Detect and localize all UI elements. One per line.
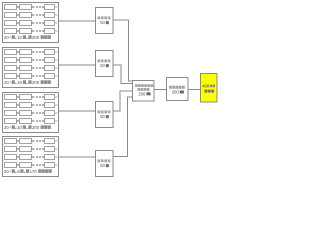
cell string row 1 in module group 1 bbox=[5, 5, 58, 10]
cell string row 2 in module group 4 bbox=[5, 147, 58, 152]
wire cluster 1 to PCS bus outer bbox=[113, 20, 132, 81]
svg-text:170: 170 bbox=[30, 169, 38, 174]
cell string row 3 in module group 2 bbox=[5, 66, 58, 71]
module group 1 caption 20 cells x N strings bbox=[4, 35, 51, 40]
battery module group box 4 bbox=[3, 137, 59, 177]
PCS converter box 200kW bbox=[133, 81, 155, 102]
battery cluster box 3 bbox=[96, 102, 114, 128]
cell string row 2 in module group 2 bbox=[5, 58, 58, 63]
battery cluster box 2 bbox=[96, 51, 114, 77]
wire module group 1 to cluster box 1 bbox=[58, 20, 95, 22]
svg-text:10: 10 bbox=[17, 35, 22, 40]
wire module group 3 to cluster box 3 bbox=[58, 110, 95, 112]
grid connection cabinet box 200kW bbox=[167, 78, 189, 101]
svg-text:10: 10 bbox=[17, 125, 22, 130]
battery module group box 1 bbox=[3, 3, 59, 43]
svg-text:20: 20 bbox=[4, 169, 9, 174]
cell string row 3 in module group 4 bbox=[5, 155, 58, 160]
cell string row 4 in module group 1 bbox=[5, 29, 58, 34]
cell string row 3 in module group 3 bbox=[5, 111, 58, 116]
cell string row 3 in module group 1 bbox=[5, 21, 58, 26]
cell string row 1 in module group 2 bbox=[5, 50, 58, 55]
svg-text:200: 200 bbox=[32, 80, 40, 85]
svg-text:200: 200 bbox=[172, 90, 180, 95]
wire cluster 2 to PCS bus inner bbox=[113, 65, 132, 84]
svg-text:20: 20 bbox=[4, 125, 9, 130]
battery module group box 3 bbox=[3, 93, 59, 133]
svg-text:200: 200 bbox=[32, 35, 40, 40]
svg-text:400: 400 bbox=[202, 84, 210, 89]
battery cluster box 4 bbox=[96, 151, 114, 177]
svg-text:20: 20 bbox=[4, 35, 9, 40]
wire module group 4 to cluster box 4 bbox=[58, 156, 95, 158]
module group 3 caption 20 cells x N strings bbox=[4, 125, 51, 130]
svg-text:50: 50 bbox=[100, 114, 105, 119]
wire cluster 4 to PCS bus outer lower bbox=[113, 97, 132, 157]
svg-text:20: 20 bbox=[4, 80, 9, 85]
cell string row 4 in module group 3 bbox=[5, 119, 58, 124]
battery cluster box 1 bbox=[96, 8, 114, 34]
wire cluster 3 to PCS bus inner lower bbox=[113, 91, 132, 111]
svg-text:200: 200 bbox=[32, 125, 40, 130]
svg-text:50: 50 bbox=[100, 163, 105, 168]
svg-text:200: 200 bbox=[138, 91, 146, 96]
cell string row 1 in module group 4 bbox=[5, 139, 58, 144]
cell string row 4 in module group 2 bbox=[5, 74, 58, 79]
cell string row 2 in module group 3 bbox=[5, 103, 58, 108]
wire module group 2 to cluster box 2 bbox=[58, 64, 95, 66]
wire cabinet to 400V access point bbox=[188, 89, 200, 91]
cell string row 1 in module group 3 bbox=[5, 95, 58, 100]
cell string row 2 in module group 1 bbox=[5, 13, 58, 18]
svg-text:50: 50 bbox=[100, 63, 105, 68]
battery module group box 2 bbox=[3, 48, 59, 88]
wire PCS to grid cabinet bbox=[154, 89, 166, 91]
cell string row 4 in module group 4 bbox=[5, 163, 58, 168]
400V grid access point highlighted yellow box bbox=[201, 74, 218, 103]
module group 4 caption 20 cells x N strings bbox=[4, 169, 52, 174]
svg-text:10: 10 bbox=[17, 80, 22, 85]
svg-text:50: 50 bbox=[100, 20, 105, 25]
module group 2 caption 20 cells x N strings bbox=[4, 80, 51, 85]
